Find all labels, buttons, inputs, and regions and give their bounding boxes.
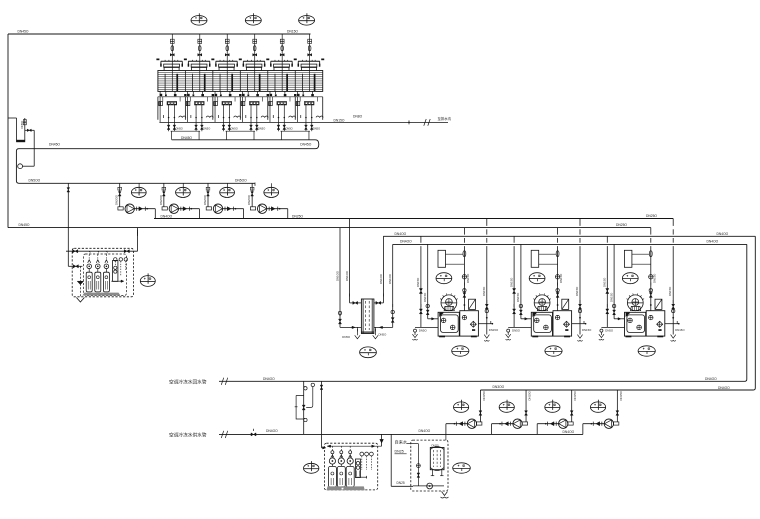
svg-text:DN25O: DN25O (616, 223, 627, 227)
svg-text:DN25: DN25 (395, 450, 404, 454)
svg-text:DN45O: DN45O (300, 142, 311, 146)
svg-text:DN1OO: DN1OO (388, 273, 392, 284)
svg-text:DN5O: DN5O (258, 127, 265, 131)
svg-text:DN45O: DN45O (19, 223, 30, 227)
svg-text:空调冷冻水供水管: 空调冷冻水供水管 (169, 431, 207, 438)
svg-text:DN5O: DN5O (313, 127, 320, 131)
svg-text:DN5O: DN5O (342, 335, 351, 339)
svg-text:DN4OO: DN4OO (263, 377, 275, 381)
svg-text:DN5O: DN5O (285, 127, 292, 131)
svg-text:DN4OO: DN4OO (161, 214, 173, 218)
svg-text:DN5O: DN5O (203, 127, 210, 131)
svg-text:自来水: 自来水 (395, 438, 408, 445)
svg-text:空调冷冻水回水管: 空调冷冻水回水管 (169, 378, 207, 385)
svg-text:DN15O: DN15O (528, 390, 532, 400)
svg-text:DN15O: DN15O (509, 277, 513, 287)
svg-text:DN15O: DN15O (668, 286, 672, 296)
svg-text:DN2OO: DN2OO (115, 194, 119, 205)
svg-text:DN5O: DN5O (176, 127, 183, 131)
svg-text:DN5OO: DN5OO (235, 179, 247, 183)
svg-text:DN25: DN25 (397, 481, 405, 485)
svg-text:DN5O: DN5O (512, 329, 521, 333)
svg-text:DN5O: DN5O (379, 333, 388, 337)
svg-text:DN15O: DN15O (609, 292, 613, 302)
svg-text:至排水沟: 至排水沟 (438, 116, 452, 121)
svg-text:DN8O: DN8O (353, 114, 363, 118)
svg-text:DN15O: DN15O (423, 292, 427, 302)
svg-text:DN15O: DN15O (603, 277, 607, 287)
svg-text:DN15O: DN15O (416, 277, 420, 287)
svg-text:DN5O: DN5O (605, 329, 614, 333)
svg-text:DN4OO: DN4OO (400, 240, 412, 244)
svg-text:DN4OO: DN4OO (563, 430, 575, 434)
svg-text:DN4OO: DN4OO (717, 232, 729, 236)
svg-text:DN15O: DN15O (482, 286, 486, 296)
svg-text:DN4OO: DN4OO (395, 232, 407, 236)
svg-text:DN2OO: DN2OO (203, 194, 207, 205)
svg-text:DN45O: DN45O (181, 136, 192, 140)
svg-text:DN4OO: DN4OO (419, 429, 431, 433)
svg-text:DN45O: DN45O (49, 143, 60, 147)
svg-text:DN15O: DN15O (619, 390, 623, 400)
svg-text:DN1OO: DN1OO (379, 273, 383, 284)
svg-text:DN15O: DN15O (675, 328, 685, 332)
svg-text:DN25O: DN25O (292, 214, 303, 218)
svg-text:DN15O: DN15O (573, 390, 577, 400)
svg-text:DN2OO: DN2OO (247, 194, 251, 205)
svg-text:DN5O: DN5O (20, 120, 24, 129)
svg-text:DN15O: DN15O (489, 328, 499, 332)
svg-text:DN15O: DN15O (482, 390, 486, 400)
svg-text:DN15O: DN15O (516, 292, 520, 302)
svg-text:DN15O: DN15O (575, 286, 579, 296)
svg-text:DN15O: DN15O (582, 328, 592, 332)
svg-text:DN2OO: DN2OO (159, 194, 163, 205)
svg-text:DN5OO: DN5OO (29, 179, 41, 183)
svg-text:DN25O: DN25O (646, 214, 657, 218)
svg-text:DN4OO: DN4OO (718, 386, 730, 390)
svg-text:DN5O: DN5O (231, 127, 238, 131)
svg-text:DN25: DN25 (432, 444, 440, 448)
svg-text:DN5O: DN5O (419, 329, 428, 333)
svg-text:DN1OO: DN1OO (345, 270, 349, 281)
svg-text:DN15O: DN15O (287, 29, 298, 33)
svg-text:DN4OO: DN4OO (707, 240, 719, 244)
svg-text:DN1OO: DN1OO (335, 270, 339, 281)
svg-text:DN45O: DN45O (18, 30, 29, 34)
svg-text:DN4OO: DN4OO (705, 377, 717, 381)
svg-text:DN4OO: DN4OO (266, 429, 278, 433)
svg-text:DN15O: DN15O (334, 119, 345, 123)
svg-text:DN3OO: DN3OO (493, 385, 505, 389)
